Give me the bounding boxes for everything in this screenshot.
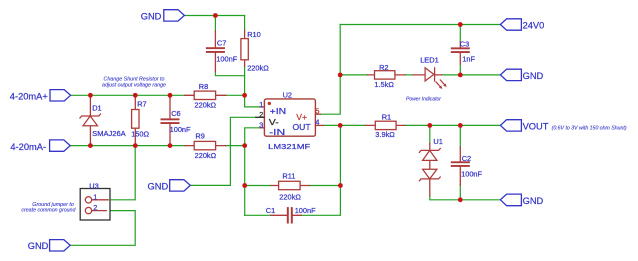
op-amp pin name +IN — [270, 106, 287, 116]
wire C1 left — [245, 214, 271, 216]
op-amp U2 body — [264, 99, 315, 136]
net label 4-20mA+ — [10, 92, 48, 102]
svg-text:LM321MF: LM321MF — [268, 142, 311, 151]
svg-text:5: 5 — [315, 106, 319, 115]
resistor R10 body — [241, 39, 248, 60]
op-amp U2 pin 1 stub — [259, 106, 264, 108]
svg-text:R1: R1 — [382, 112, 391, 121]
net label GND bottom-left — [28, 241, 49, 251]
connector U3 pin 1 — [85, 197, 109, 203]
svg-text:150Ω: 150Ω — [131, 130, 149, 139]
annotation power indicator — [406, 97, 441, 103]
op-amp U2 pin 4 stub — [315, 124, 324, 126]
svg-text:GND: GND — [523, 196, 544, 206]
svg-text:R10: R10 — [247, 30, 261, 39]
op-amp pin name OUT — [293, 122, 312, 132]
svg-text:R2: R2 — [379, 63, 388, 72]
svg-text:2: 2 — [93, 203, 97, 212]
net label 24V0 — [523, 21, 545, 31]
label R7 — [131, 100, 149, 139]
svg-text:V-: V- — [269, 117, 279, 127]
svg-text:4: 4 — [315, 117, 319, 126]
resistor R1 pins — [365, 124, 404, 126]
label R8 — [195, 82, 217, 110]
label C7 — [216, 38, 237, 63]
net flag GND right-top — [500, 69, 521, 80]
wire C1 right up to OUT node — [301, 125, 340, 215]
svg-text:U2: U2 — [283, 91, 292, 100]
svg-text:4-20mA-: 4-20mA- — [10, 142, 46, 152]
wire LED1 to GND flag — [441, 74, 500, 76]
resistor R1 body — [375, 121, 396, 129]
wire R9 right to node — [226, 145, 245, 147]
svg-text:create common ground: create common ground — [21, 208, 75, 214]
svg-text:220kΩ: 220kΩ — [195, 101, 217, 110]
svg-text:U3: U3 — [89, 181, 98, 190]
op-amp U2 pin 3 stub — [259, 127, 264, 129]
svg-text:+IN: +IN — [270, 106, 287, 116]
net flag 4-20mA- — [50, 140, 71, 151]
svg-text:adjust output voltage range: adjust output voltage range — [102, 82, 166, 88]
op-amp pin name V- — [269, 117, 279, 127]
net flag GND top-left — [164, 10, 185, 21]
op-amp pin number 3 — [259, 121, 263, 130]
U3 pin number 1 — [93, 192, 97, 201]
capacitor C7 pins — [214, 31, 216, 72]
svg-text:220kΩ: 220kΩ — [247, 63, 269, 72]
connector U3 pin 2 — [85, 207, 107, 213]
svg-text:C7: C7 — [217, 38, 226, 47]
op-amp U2 pin 5 stub — [315, 113, 321, 115]
wire R11 right — [309, 185, 340, 187]
LED1 symbol — [425, 67, 445, 87]
wire U3 pin 1 to 4-20mA- net — [109, 146, 135, 200]
svg-text:GND: GND — [141, 11, 162, 21]
resistor R2 body — [375, 71, 395, 79]
capacitor C2 plates — [451, 161, 470, 167]
wire C3 top — [459, 25, 461, 43]
wire R10 bottom to node — [244, 66, 246, 95]
TVS U1 symbol — [419, 148, 441, 181]
wire R11 left — [245, 185, 271, 187]
capacitor C1 pins — [271, 214, 301, 216]
resistor R8 body — [194, 91, 215, 99]
wire op-amp pin 4 OUT to R1 — [324, 124, 365, 126]
op-amp pin name V+ — [296, 112, 307, 122]
svg-text:OUT: OUT — [293, 122, 312, 132]
svg-text:100nF: 100nF — [295, 206, 316, 215]
resistor R11 pins — [271, 185, 309, 187]
TVS U1 pins — [429, 144, 431, 197]
svg-text:3: 3 — [259, 121, 263, 130]
wire R10 top feed — [244, 16, 246, 31]
label R10 — [247, 30, 269, 73]
resistor R10 pins — [244, 31, 246, 67]
svg-text:1: 1 — [93, 192, 97, 201]
LED1 arrowheads — [439, 84, 447, 89]
op-amp pin number 5 — [315, 106, 319, 115]
svg-text:3.9kΩ: 3.9kΩ — [375, 130, 395, 139]
wire R2 to LED1 — [405, 74, 413, 76]
diode D1 pins — [89, 95, 91, 145]
svg-text:C6: C6 — [171, 109, 180, 118]
capacitor C2 pins — [459, 147, 461, 185]
op-amp U2 pin 2 stub — [255, 116, 264, 118]
net flag GND bottom-left — [50, 240, 71, 251]
wire 4-20mA+ row — [70, 94, 185, 96]
wire U1 bottom to right GND row — [430, 196, 501, 200]
net label GND right-bottom — [523, 196, 544, 206]
svg-text:2: 2 — [259, 110, 263, 119]
svg-text:GND: GND — [28, 241, 49, 251]
wire 24V node to R2 — [340, 74, 367, 76]
annotation vout range — [552, 125, 627, 131]
wire 24V0 rail — [340, 24, 500, 26]
wire 4-20mA- row — [70, 145, 185, 147]
svg-text:R9: R9 — [195, 132, 204, 141]
label R2 — [374, 63, 394, 89]
op-amp pin number 4 — [315, 117, 319, 126]
resistor R8 pins — [185, 94, 226, 96]
svg-text:GND: GND — [148, 182, 169, 192]
svg-text:-IN: -IN — [269, 127, 285, 137]
wire top GND rail — [184, 15, 244, 17]
wire C3 bottom — [459, 64, 461, 75]
wire C2 top — [459, 125, 461, 146]
svg-text:100nF: 100nF — [170, 125, 191, 134]
LED1 pins — [413, 74, 441, 76]
op-amp U2 pin1 marker dot — [268, 102, 271, 105]
svg-text:LED1: LED1 — [420, 56, 439, 65]
svg-text:1.5kΩ: 1.5kΩ — [374, 80, 394, 89]
svg-text:(0.6V to 3V with 150 ohm Shunt: (0.6V to 3V with 150 ohm Shunt) — [552, 125, 627, 131]
svg-text:D1: D1 — [92, 103, 101, 112]
wire -IN net vertical to R11 row — [244, 146, 246, 186]
wire U1 top — [429, 125, 431, 143]
label C2 — [461, 154, 482, 179]
svg-text:C2: C2 — [462, 154, 471, 163]
net label GND right-top — [523, 71, 544, 81]
svg-text:4-20mA+: 4-20mA+ — [10, 92, 48, 102]
svg-text:GND: GND — [523, 71, 544, 81]
svg-text:C1: C1 — [266, 206, 275, 215]
op-amp pin name -IN — [269, 127, 285, 137]
wire C2 bottom — [459, 185, 461, 200]
wire C7 top feed — [214, 16, 216, 32]
label D1 — [92, 103, 126, 137]
capacitor C3 plates — [451, 47, 470, 53]
connector U3 body — [80, 189, 110, 221]
resistor R9 body — [194, 141, 215, 149]
label R9 — [195, 132, 217, 160]
svg-text:C3: C3 — [460, 40, 469, 49]
svg-text:V+: V+ — [296, 112, 307, 122]
net label GND middle — [148, 182, 169, 192]
svg-text:1nF: 1nF — [462, 55, 475, 64]
resistor R7 body — [132, 110, 139, 129]
resistor R11 body — [279, 181, 301, 189]
net flag GND middle — [170, 180, 191, 191]
svg-text:24V0: 24V0 — [523, 21, 545, 31]
svg-text:100nF: 100nF — [461, 170, 482, 179]
svg-text:1: 1 — [259, 100, 263, 109]
svg-text:R11: R11 — [282, 172, 295, 181]
svg-text:VOUT: VOUT — [523, 122, 549, 132]
net label VOUT — [523, 122, 549, 132]
svg-text:Power Indicator: Power Indicator — [406, 97, 441, 103]
wire R8 right to node — [226, 94, 245, 96]
op-amp pin number 1 — [259, 100, 263, 109]
wire op-amp pin 3 -IN down — [245, 128, 260, 146]
label C1 — [266, 206, 316, 215]
svg-text:SMAJ26A: SMAJ26A — [92, 129, 126, 138]
label C6 — [170, 109, 191, 134]
svg-text:U1: U1 — [433, 137, 442, 146]
wire GND flag to op-amp pin 2 V- — [191, 117, 255, 185]
wire -IN net vertical to C1 row — [244, 186, 246, 216]
label R1 — [375, 112, 395, 139]
capacitor C1 plates — [287, 207, 293, 223]
label U3 — [89, 181, 98, 190]
capacitor C6 pins — [169, 95, 171, 145]
label LED1 — [420, 56, 439, 65]
capacitor C3 pins — [459, 42, 461, 64]
wire C7-R10 bottom connector — [215, 72, 244, 76]
label R11 — [279, 172, 301, 202]
resistor R2 pins — [368, 74, 406, 76]
U3 pin number 2 — [93, 203, 97, 212]
net flag GND right-bottom — [500, 194, 521, 206]
annotation change shunt resistor — [102, 77, 166, 89]
svg-text:R8: R8 — [199, 82, 208, 91]
label C3 — [460, 40, 476, 64]
svg-text:100nF: 100nF — [216, 55, 237, 64]
wire op-amp pin 5 V+ to 24V rail — [321, 25, 340, 115]
net flag 24V0 — [500, 19, 521, 30]
net flag 4-20mA+ — [50, 90, 71, 101]
resistor R7 pins — [134, 95, 136, 145]
diode D1 symbol — [80, 114, 101, 126]
label U1 — [433, 137, 442, 146]
wire node to op-amp pin 1 — [245, 95, 260, 107]
annotation ground jumper — [21, 202, 75, 214]
capacitor C6 plates — [161, 118, 180, 124]
svg-text:220kΩ: 220kΩ — [279, 193, 301, 202]
net label 4-20mA- — [10, 142, 46, 152]
wire U3 pin 2 to bottom GND flag — [70, 211, 135, 246]
capacitor C7 plates — [206, 47, 225, 53]
svg-text:R7: R7 — [137, 100, 146, 109]
svg-text:220kΩ: 220kΩ — [195, 151, 217, 160]
op-amp pin number 2 — [259, 110, 263, 119]
wire R1 right to VOUT flag — [405, 124, 501, 126]
net label GND top-left — [141, 11, 162, 21]
label U2 — [268, 91, 311, 151]
net flag VOUT — [500, 120, 521, 131]
resistor R9 pins — [185, 145, 226, 147]
